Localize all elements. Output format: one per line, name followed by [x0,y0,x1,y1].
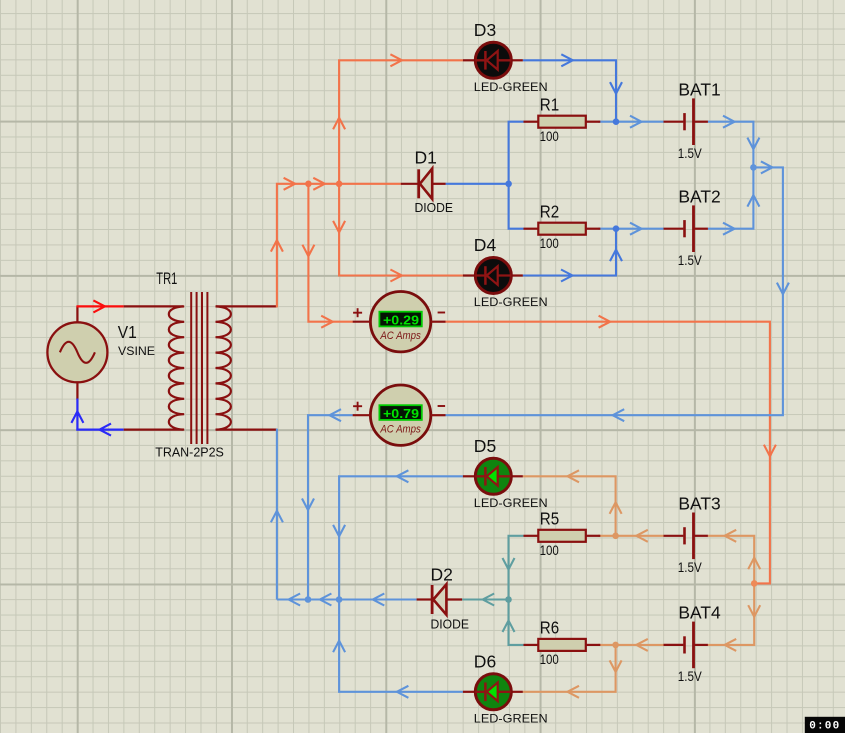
svg-text:0:00: 0:00 [809,721,840,733]
svg-text:D1: D1 [415,148,437,168]
svg-text:1.5V: 1.5V [678,560,702,575]
svg-text:R2: R2 [540,202,559,222]
svg-text:V1: V1 [118,322,137,342]
svg-text:TR1: TR1 [156,270,177,288]
svg-text:DIODE: DIODE [415,200,454,215]
svg-text:D3: D3 [474,20,496,40]
svg-text:VSINE: VSINE [118,344,155,358]
svg-text:LED-GREEN: LED-GREEN [474,295,548,309]
svg-text:R6: R6 [540,618,559,638]
svg-text:LED-GREEN: LED-GREEN [474,80,548,94]
svg-text:100: 100 [540,542,559,558]
svg-text:AC Amps: AC Amps [379,330,421,342]
svg-text:LED-GREEN: LED-GREEN [474,711,548,725]
svg-text:D4: D4 [474,235,497,255]
svg-text:1.5V: 1.5V [678,669,702,684]
svg-text:+0.29: +0.29 [383,314,419,328]
svg-text:100: 100 [540,235,559,251]
svg-text:BAT1: BAT1 [678,80,720,100]
svg-text:TRAN-2P2S: TRAN-2P2S [155,445,224,460]
svg-text:BAT3: BAT3 [678,494,720,514]
svg-text:1.5V: 1.5V [678,253,702,268]
svg-text:D2: D2 [431,565,453,585]
svg-text:R5: R5 [540,509,559,529]
svg-text:BAT2: BAT2 [678,187,720,207]
svg-text:D6: D6 [474,652,496,672]
svg-text:+0.79: +0.79 [383,407,419,421]
svg-text:100: 100 [540,651,559,667]
svg-text:D5: D5 [474,436,496,456]
svg-text:BAT4: BAT4 [678,603,721,623]
svg-text:DIODE: DIODE [431,616,470,631]
svg-text:R1: R1 [540,95,559,115]
svg-text:AC Amps: AC Amps [379,424,421,436]
svg-text:1.5V: 1.5V [678,146,702,161]
svg-text:100: 100 [540,128,559,144]
svg-text:LED-GREEN: LED-GREEN [474,496,548,510]
